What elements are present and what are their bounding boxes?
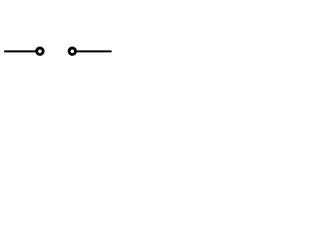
node A: left open terminal bbox=[37, 48, 43, 54]
node B: right open terminal bbox=[69, 48, 75, 54]
wire: right lead bbox=[76, 50, 111, 52]
wire: left lead bbox=[5, 50, 36, 52]
